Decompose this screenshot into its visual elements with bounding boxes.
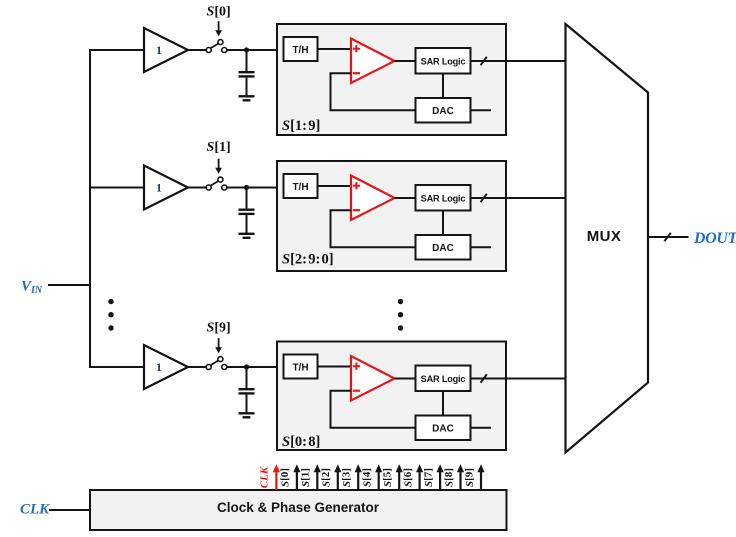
ground symbol ch1 [239, 96, 255, 100]
junction node at sampling cap ch2 [244, 185, 249, 190]
comparator ch2 [351, 176, 395, 221]
svg-text:SAR Logic: SAR Logic [421, 194, 466, 204]
output bus SAR logic to MUX ch1 [471, 60, 567, 62]
wire MUX to DOUT [648, 236, 689, 238]
phase output arrow S[5] [396, 464, 403, 490]
phase output arrow S[3] [355, 464, 362, 490]
wire SAR logic to DAC ch2 [442, 211, 444, 236]
svg-text:MUX: MUX [587, 228, 622, 245]
phase output arrow S[4] [375, 464, 382, 490]
ground symbol ch3 [239, 413, 255, 417]
SAR ADC channel box ch3 [277, 342, 506, 451]
DAC block ch2 [416, 235, 471, 260]
switch S[1] ch2 [206, 177, 227, 190]
phase output arrow S[1] [314, 464, 321, 490]
svg-text:T/H: T/H [292, 182, 308, 193]
buffer amplifier ch3 (gain 1) [144, 345, 188, 389]
ellipsis dots (more channels, right) [398, 299, 403, 331]
wire comparator to SAR logic ch1 [395, 60, 417, 62]
output bus SAR logic to MUX ch2 [471, 197, 567, 199]
svg-text:S[2: 9: 0]: S[2: 9: 0] [282, 252, 334, 268]
T/H block ch1 [284, 37, 318, 61]
svg-text:S[0]: S[0] [279, 468, 291, 487]
control arrow to switch S[9] [215, 338, 222, 353]
svg-text:DOUT: DOUT [693, 230, 736, 247]
svg-text:S[7]: S[7] [422, 468, 434, 487]
svg-text:T/H: T/H [292, 45, 308, 56]
svg-text:SAR Logic: SAR Logic [421, 57, 466, 67]
phase output arrow S[9] [477, 464, 484, 490]
bus slash mark ch2 [481, 194, 487, 202]
svg-text:S[4]: S[4] [361, 468, 373, 487]
switch S[0] ch1 [206, 40, 227, 53]
DAC reference stub ch2 [471, 246, 492, 248]
svg-text:S[9]: S[9] [463, 468, 475, 487]
T/H block ch2 [284, 174, 318, 198]
svg-text:S[2]: S[2] [320, 468, 332, 487]
ground symbol ch2 [239, 234, 255, 238]
clock and phase generator box [90, 490, 507, 530]
ellipsis dots (more channels, left) [108, 299, 113, 331]
wire trunk to buffer ch2 [89, 187, 145, 189]
phase output arrow S[6] [416, 464, 423, 490]
svg-text:S[0: 8]: S[0: 8] [282, 434, 320, 450]
wire comparator to SAR logic ch3 [395, 378, 417, 380]
comparator ch1 [351, 39, 395, 84]
wire buffer to switch ch2 [188, 187, 207, 189]
wire T/H to comparator ch2 [318, 185, 353, 187]
wire CLK to generator [49, 509, 91, 511]
svg-text:S[9]: S[9] [207, 321, 231, 336]
sampling capacitor ch2 [239, 188, 255, 234]
DAC block ch1 [416, 98, 471, 123]
SAR Logic block ch3 [416, 366, 471, 392]
sampling capacitor ch3 [239, 367, 255, 413]
feedback wire DAC to comparator inverting input ch1 [331, 73, 416, 110]
svg-text:S[3]: S[3] [341, 468, 353, 487]
T/H block ch3 [284, 355, 318, 379]
wire comparator to SAR logic ch2 [395, 197, 417, 199]
SAR Logic block ch2 [416, 185, 471, 211]
wire SAR logic to DAC ch1 [442, 74, 444, 99]
svg-text:DAC: DAC [432, 424, 454, 435]
junction node at sampling cap ch3 [244, 364, 249, 369]
svg-text:S[8]: S[8] [443, 468, 455, 487]
wire buffer to switch ch3 [188, 366, 207, 368]
DAC reference stub ch1 [471, 109, 492, 111]
phase output arrow S[2] [334, 464, 341, 490]
wire switch to T/H input ch1 [227, 49, 284, 51]
wire SAR logic to DAC ch3 [442, 391, 444, 416]
svg-text:S[1]: S[1] [207, 140, 231, 155]
wire switch to T/H input ch2 [227, 187, 284, 189]
svg-text:SAR Logic: SAR Logic [421, 374, 466, 384]
feedback wire DAC to comparator inverting input ch3 [331, 391, 416, 428]
buffer amplifier ch1 (gain 1) [144, 28, 188, 72]
control arrow to switch S[0] [215, 21, 222, 36]
input trunk wire (vertical bus) [89, 50, 91, 367]
wire T/H to comparator ch3 [318, 366, 353, 368]
output bus SAR logic to MUX ch3 [471, 378, 567, 380]
multiplexer MUX [566, 24, 649, 453]
svg-text:Clock & Phase Generator: Clock & Phase Generator [217, 500, 380, 515]
svg-text:S[6]: S[6] [402, 468, 414, 487]
bus slash mark ch1 [481, 57, 487, 65]
wire trunk to buffer ch3 [89, 366, 145, 368]
svg-text:DAC: DAC [432, 243, 454, 254]
svg-text:T/H: T/H [292, 362, 308, 373]
phase output arrow S[7] [437, 464, 444, 490]
wire buffer to switch ch1 [188, 49, 207, 51]
bus slash mark ch3 [481, 374, 487, 382]
wire T/H to comparator ch1 [318, 48, 353, 50]
junction node at sampling cap ch1 [244, 47, 249, 52]
svg-text:CLK: CLK [259, 466, 271, 488]
svg-text:1: 1 [156, 43, 162, 57]
svg-text:S[1: 9]: S[1: 9] [282, 118, 320, 134]
DAC block ch3 [416, 416, 471, 441]
phase output arrow S[0] [293, 464, 300, 490]
bus slash mark DOUT [664, 233, 670, 241]
SAR ADC channel box ch1 [277, 24, 506, 135]
feedback wire DAC to comparator inverting input ch2 [331, 210, 416, 247]
DAC reference stub ch3 [471, 427, 492, 429]
comparator ch3 [351, 356, 395, 401]
svg-text:S[0]: S[0] [207, 5, 231, 20]
svg-text:DAC: DAC [432, 106, 454, 117]
SAR Logic block ch1 [416, 48, 471, 74]
buffer amplifier ch2 (gain 1) [144, 166, 188, 210]
wire trunk to buffer ch1 [89, 49, 145, 51]
svg-text:1: 1 [156, 181, 162, 195]
control arrow to switch S[1] [215, 159, 222, 174]
sampling capacitor ch1 [239, 50, 255, 96]
phase output arrow S[8] [457, 464, 464, 490]
phase output arrow CLK [273, 464, 280, 490]
svg-text:S[5]: S[5] [382, 468, 394, 487]
wire VIN to trunk [48, 284, 90, 286]
svg-text:S[1]: S[1] [300, 468, 312, 487]
svg-text:CLK: CLK [20, 502, 50, 518]
wire switch to T/H input ch3 [227, 366, 284, 368]
SAR ADC channel box ch2 [277, 161, 506, 271]
switch S[9] ch3 [206, 357, 227, 370]
svg-text:1: 1 [156, 360, 162, 374]
